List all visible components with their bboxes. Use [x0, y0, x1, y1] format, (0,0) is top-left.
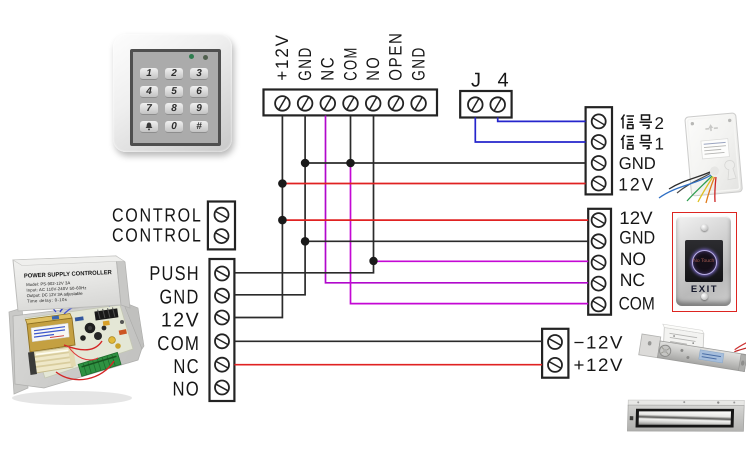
doorbell terminal block: [586, 107, 612, 194]
keypad terminal block: [264, 90, 438, 116]
capacitors: [85, 323, 96, 334]
svg-text:J: J: [471, 70, 481, 92]
wire keypad +12V down to PSU 12V: [234, 116, 282, 318]
wire blue J4 pin2 to xinhao2: [498, 117, 586, 121]
wire keypad COM upper (black): [350, 116, 352, 164]
front face: [627, 402, 744, 434]
chassis right flange: [123, 302, 144, 349]
svg-text:COM: COM: [619, 294, 655, 314]
red wires: [735, 336, 746, 353]
chassis left wall: [9, 308, 28, 394]
svg-text:GND: GND: [619, 228, 655, 248]
wire keypad NO down to PSU PUSH: [234, 116, 373, 273]
junction COM-GND line: [346, 159, 355, 168]
svg-text:12V: 12V: [618, 174, 655, 194]
svg-text:+12V: +12V: [574, 355, 625, 375]
CONTROL terminal block: [208, 202, 235, 250]
svg-text:NC: NC: [318, 56, 338, 81]
magnet mirror strip: [639, 409, 731, 428]
keyhole slot: [724, 160, 736, 180]
keypad LED dark: [203, 55, 208, 60]
wire PSU COM to -12V: [234, 340, 542, 342]
junction GND-exit: [301, 237, 310, 246]
main bar: [657, 341, 746, 372]
blue wires over pcb: [60, 297, 106, 312]
small components: [103, 321, 110, 326]
doorbell body: [685, 113, 743, 196]
rainbow wires: [669, 172, 710, 189]
svg-text:GND: GND: [295, 46, 315, 81]
svg-text:GND: GND: [408, 46, 428, 81]
lock power terminal block: [542, 329, 568, 378]
svg-text:4: 4: [498, 70, 509, 92]
doorbell receiver photo: [651, 98, 746, 210]
svg-text:NO: NO: [363, 56, 383, 81]
chassis tray: [13, 302, 142, 388]
svg-text:CONTROL: CONTROL: [112, 226, 203, 247]
green terminal strip: [78, 352, 121, 376]
solenoid box: [661, 327, 705, 351]
wire keypad COM to exit COM (magenta): [351, 163, 589, 304]
wire red +12V to exit 12V: [282, 219, 588, 221]
transformer: [26, 314, 76, 353]
wire red +12V to doorbell 12V: [282, 183, 585, 185]
svg-text:COM: COM: [340, 46, 360, 81]
faceplate: [639, 334, 661, 358]
keypad access controller photo: [113, 34, 232, 152]
label xinhao2: [621, 114, 664, 133]
blue sticker: [699, 350, 724, 363]
wire keypad NC to exit NC (purple): [326, 116, 589, 283]
svg-text:NC: NC: [620, 270, 645, 290]
keys: [140, 68, 210, 138]
end cap: [738, 354, 746, 371]
wire keypad GND down to PSU GND: [234, 116, 305, 295]
bar details: [680, 349, 683, 352]
exit button photo: [672, 212, 737, 311]
chassis shadow: [12, 391, 132, 405]
junction +12V-doorbell: [278, 179, 287, 188]
svg-text:+12V: +12V: [272, 33, 292, 81]
svg-text:−12V: −12V: [574, 332, 625, 352]
hanger mark: [708, 124, 713, 131]
wire blue J4 pin1 to xinhao1: [475, 117, 585, 142]
PSU cover box: [13, 256, 130, 311]
svg-text:12V: 12V: [619, 208, 652, 228]
red wires: [64, 341, 102, 350]
wire GND line to doorbell GND: [305, 162, 585, 164]
PCB: [25, 305, 133, 378]
wire NO to exit NO (magenta): [374, 260, 589, 262]
label xinhao1: [621, 135, 664, 154]
sticker label: [701, 139, 729, 159]
electric bolt lock photo: [636, 318, 746, 393]
top face: [628, 397, 744, 409]
connector J4 block: [460, 91, 511, 118]
junction +12V-exit: [278, 216, 287, 225]
wire exit hole: [710, 166, 720, 176]
power supply controller photo: [0, 248, 250, 458]
junction NO-exit: [369, 257, 377, 265]
exit button terminal block: [588, 209, 611, 315]
svg-text:NO: NO: [620, 249, 646, 269]
power supply terminal block: [210, 259, 235, 401]
mount screws: [691, 122, 695, 126]
heatsink comb: [94, 307, 118, 321]
wire GND to exit GND: [305, 240, 588, 242]
magnetic lock photo: [626, 390, 746, 438]
junction GND-doorbell: [301, 159, 310, 168]
wire red PSU NC to +12V: [234, 364, 542, 366]
transformer coil: [28, 347, 76, 375]
magnet window frame: [636, 406, 735, 430]
svg-text:OPEN: OPEN: [386, 31, 406, 80]
bolt cylinder: [659, 344, 672, 357]
svg-text:CONTROL: CONTROL: [112, 206, 203, 227]
keypad LED green: [189, 54, 194, 59]
